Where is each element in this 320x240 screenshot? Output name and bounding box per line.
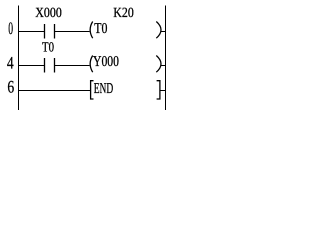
coil T0 left parenthesis xyxy=(90,22,93,39)
svg-text:X000: X000 xyxy=(35,6,62,21)
svg-text:Y000: Y000 xyxy=(93,54,119,70)
contact X000 left bar xyxy=(44,24,46,39)
left power rail xyxy=(18,6,20,111)
right power rail xyxy=(165,6,167,111)
coil Y000 right parenthesis xyxy=(156,56,161,73)
svg-text:T0: T0 xyxy=(42,41,54,56)
coil T0 right parenthesis xyxy=(156,22,161,39)
svg-text:4: 4 xyxy=(7,53,14,73)
svg-text:T0: T0 xyxy=(94,21,107,37)
svg-text:END: END xyxy=(94,81,114,97)
contact T0 right bar xyxy=(54,58,56,73)
wire rung1 contact X000 to coil T0 xyxy=(55,31,90,33)
wire rung2 contact T0 to coil Y000 xyxy=(55,65,90,67)
END instruction left bracket xyxy=(91,81,94,99)
wire rung3 rail to END instruction xyxy=(19,90,91,92)
wire coil Y000 to right rail xyxy=(161,65,166,67)
wire END bracket to right rail xyxy=(160,90,166,92)
svg-text:6: 6 xyxy=(7,76,14,96)
wire rung2 rail to contact T0 xyxy=(19,65,45,67)
svg-text:0: 0 xyxy=(8,18,13,38)
wire coil T0 to right rail xyxy=(161,31,166,33)
wire rung1 rail to contact X000 xyxy=(19,31,45,33)
contact X000 right bar xyxy=(54,24,56,39)
END instruction right bracket xyxy=(157,81,160,99)
coil Y000 left parenthesis xyxy=(90,56,93,73)
svg-text:K20: K20 xyxy=(113,6,134,21)
contact T0 left bar xyxy=(44,58,46,73)
